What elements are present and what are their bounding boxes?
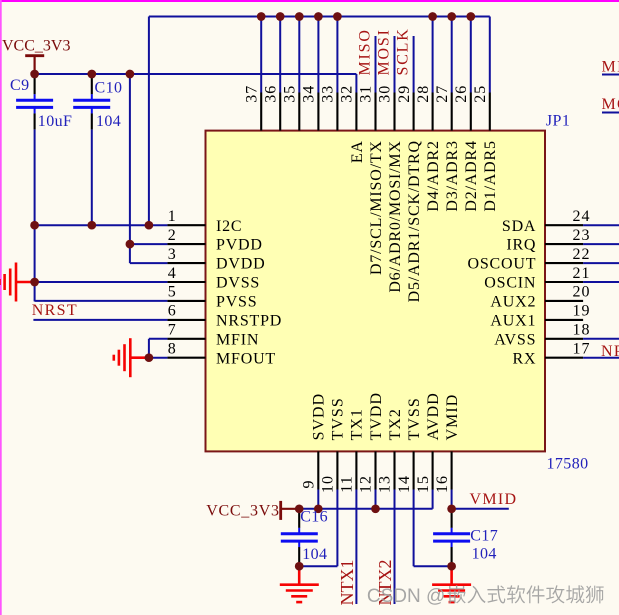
svg-text:D4/ADR2: D4/ADR2	[425, 140, 442, 211]
svg-text:1: 1	[168, 208, 176, 225]
svg-text:AUX1: AUX1	[490, 313, 536, 330]
svg-text:2: 2	[168, 227, 176, 244]
svg-text:VCC_3V3: VCC_3V3	[206, 502, 279, 519]
svg-text:4: 4	[168, 265, 176, 282]
svg-text:35: 35	[282, 85, 299, 103]
svg-text:SDA: SDA	[502, 218, 536, 235]
svg-text:15: 15	[415, 475, 432, 493]
svg-text:DVDD: DVDD	[216, 256, 265, 273]
svg-text:NTX1: NTX1	[337, 560, 357, 606]
svg-text:PVDD: PVDD	[216, 237, 263, 254]
svg-text:MISO: MISO	[357, 28, 374, 75]
svg-text:25: 25	[472, 85, 489, 103]
svg-text:D7/SCL/MISO/TX: D7/SCL/MISO/TX	[368, 140, 385, 275]
svg-text:VCC_3V3: VCC_3V3	[2, 37, 70, 54]
svg-text:8: 8	[168, 341, 176, 358]
svg-text:OSCOUT: OSCOUT	[467, 256, 536, 273]
svg-text:CSDN @: CSDN @	[367, 586, 445, 607]
svg-text:DVSS: DVSS	[216, 275, 260, 292]
svg-text:VMID: VMID	[444, 394, 461, 441]
svg-text:29: 29	[396, 85, 413, 103]
svg-text:20: 20	[573, 284, 591, 301]
svg-text:I2C: I2C	[216, 218, 242, 235]
svg-text:AUX2: AUX2	[490, 294, 536, 311]
svg-text:D3/ADR3: D3/ADR3	[444, 140, 461, 211]
svg-text:OSCIN: OSCIN	[484, 275, 536, 292]
svg-text:16: 16	[434, 475, 451, 493]
svg-text:37: 37	[243, 85, 260, 103]
svg-text:13: 13	[377, 475, 394, 493]
svg-text:30: 30	[377, 85, 394, 103]
svg-text:C17: C17	[470, 528, 498, 545]
svg-text:104: 104	[472, 545, 497, 562]
svg-text:12: 12	[358, 475, 375, 493]
svg-text:17: 17	[573, 341, 591, 358]
svg-text:IRQ: IRQ	[506, 237, 536, 254]
svg-text:10: 10	[320, 475, 337, 493]
svg-text:27: 27	[434, 85, 451, 103]
svg-text:6: 6	[168, 303, 176, 320]
svg-text:17580: 17580	[547, 455, 589, 472]
svg-text:5: 5	[168, 284, 176, 301]
svg-text:C16: C16	[300, 508, 328, 525]
svg-text:104: 104	[96, 113, 121, 130]
svg-text:SVDD: SVDD	[311, 393, 328, 441]
svg-text:19: 19	[573, 303, 591, 320]
svg-text:PVSS: PVSS	[216, 294, 257, 311]
svg-text:26: 26	[453, 85, 470, 103]
svg-text:MOSI: MOSI	[376, 28, 393, 75]
svg-text:EA: EA	[349, 140, 366, 163]
svg-text:D5/ADR1/SCK/DTRQ: D5/ADR1/SCK/DTRQ	[406, 140, 423, 302]
svg-text:28: 28	[415, 85, 432, 103]
svg-text:3: 3	[168, 246, 176, 263]
svg-text:C9: C9	[10, 77, 29, 94]
svg-text:TX2: TX2	[387, 408, 404, 440]
svg-text:23: 23	[573, 227, 591, 244]
svg-text:14: 14	[396, 475, 413, 493]
svg-text:TX1: TX1	[349, 408, 366, 440]
svg-text:D1/ADR5: D1/ADR5	[482, 140, 499, 211]
svg-text:TVSS: TVSS	[406, 397, 423, 440]
svg-text:32: 32	[339, 85, 356, 103]
svg-text:24: 24	[573, 208, 591, 225]
svg-text:11: 11	[339, 475, 356, 492]
svg-text:22: 22	[573, 246, 591, 263]
svg-text:TVDD: TVDD	[368, 392, 385, 440]
svg-text:33: 33	[320, 85, 337, 103]
svg-text:10uF: 10uF	[38, 113, 73, 130]
svg-text:MFIN: MFIN	[216, 331, 259, 348]
svg-text:AVSS: AVSS	[494, 331, 536, 348]
svg-text:D2/ADR4: D2/ADR4	[463, 140, 480, 211]
svg-text:9: 9	[301, 480, 318, 489]
svg-text:MFOUT: MFOUT	[216, 350, 276, 367]
svg-text:36: 36	[262, 85, 279, 103]
svg-text:NRSTPD: NRSTPD	[216, 313, 282, 330]
svg-text:104: 104	[302, 546, 327, 563]
svg-text:AVDD: AVDD	[425, 392, 442, 440]
svg-text:JP1: JP1	[546, 113, 570, 130]
svg-text:18: 18	[573, 322, 591, 339]
svg-text:MOSI: MOSI	[602, 96, 619, 113]
svg-text:31: 31	[358, 85, 375, 103]
svg-text:7: 7	[168, 322, 176, 339]
svg-text:SCLK: SCLK	[395, 27, 412, 75]
svg-text:34: 34	[301, 85, 318, 103]
svg-text:C10: C10	[95, 80, 123, 97]
svg-text:21: 21	[573, 265, 591, 282]
svg-text:NRX: NRX	[601, 343, 619, 360]
svg-text:TVSS: TVSS	[330, 397, 347, 440]
svg-text:RX: RX	[512, 350, 536, 367]
svg-text:D6/ADR0/MOSI/MX: D6/ADR0/MOSI/MX	[387, 140, 404, 292]
svg-text:MISO: MISO	[602, 59, 619, 76]
svg-text:VMID: VMID	[470, 491, 518, 508]
svg-text:NRST: NRST	[32, 302, 78, 319]
